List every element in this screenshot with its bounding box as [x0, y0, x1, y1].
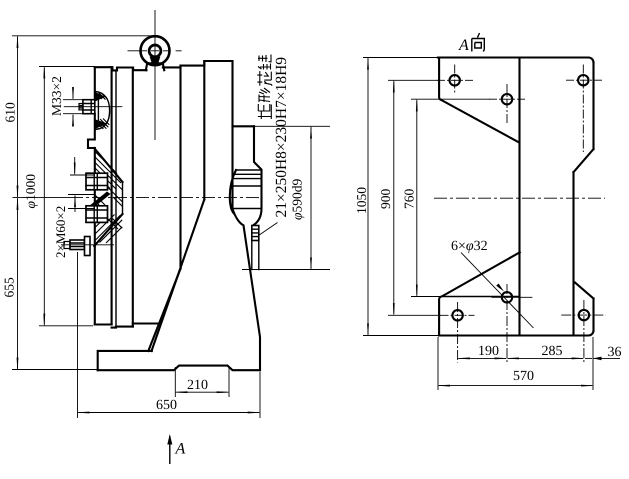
bottom small bolt nut [70, 240, 85, 250]
bottom-left ear chamfer diagonal [444, 252, 520, 295]
ext line hole1 row [388, 79, 440, 81]
dome hatch [95, 93, 109, 130]
shaft end verticals [252, 241, 259, 270]
M60 stud lower [86, 206, 108, 223]
svg-text:650: 650 [156, 398, 177, 413]
svg-text:610: 610 [3, 102, 18, 123]
svg-text:1050: 1050 [354, 187, 369, 214]
svg-text:φ1000: φ1000 [23, 174, 38, 209]
bolt hole H1 [450, 75, 460, 85]
eyebolt centrelines [154, 10, 156, 140]
top-left ear left edge [439, 58, 441, 101]
CJK char JU (rotated) [258, 104, 272, 119]
svg-text:570: 570 [513, 369, 534, 384]
centre column left edge [518, 58, 520, 336]
flange top edge [438, 58, 594, 63]
ext line flange bottom [363, 335, 439, 337]
svg-text:210: 210 [187, 378, 208, 393]
svg-text:6×φ32: 6×φ32 [451, 239, 488, 254]
bolt hole H6 [579, 310, 589, 320]
bolt hole H4 [452, 310, 462, 320]
body top edge segments [95, 67, 147, 70]
dim 190 [459, 357, 506, 359]
svg-text:655: 655 [2, 277, 17, 298]
eyebolt ring [141, 36, 170, 65]
dim M33x2 [63, 100, 83, 114]
black slab between studs [89, 192, 111, 210]
dim 285 [508, 357, 583, 359]
bolt hole H3 [578, 75, 588, 85]
plate vertical left edge [88, 67, 95, 324]
horizontal centreline [434, 197, 605, 199]
plate vertical lines [111, 67, 113, 324]
taper diagonal outer [148, 269, 180, 351]
svg-text:21×250H8×230H7×18H9: 21×250H8×230H7×18H9 [273, 57, 290, 218]
hub horizontal lines [231, 170, 262, 209]
M33 nut [83, 100, 95, 114]
svg-text:190: 190 [478, 344, 499, 359]
dim 655 [12, 369, 98, 371]
dim 900 line [393, 81, 395, 314]
taper diagonal inner [152, 200, 205, 352]
base bottom with pad [98, 366, 260, 371]
CJK char HUA (rotated) [257, 71, 272, 86]
CJK label rectangular spline [257, 55, 272, 120]
right lower slope [233, 209, 261, 370]
ext line right edge [592, 337, 594, 390]
svg-text:2×M60×2: 2×M60×2 [53, 206, 68, 258]
centre column right edge [572, 172, 574, 335]
eyebolt base [146, 63, 164, 70]
M33 thread stub [79, 104, 83, 110]
shelf line [233, 125, 255, 127]
eyebolt shank black [150, 57, 161, 64]
bolt hole H2 [502, 94, 512, 104]
dim 1050 line [367, 59, 369, 335]
bottom bolt flange [85, 237, 91, 256]
base step horizontal [98, 351, 152, 370]
svg-text:A: A [175, 441, 186, 458]
dim 210 [175, 367, 229, 397]
dim 650 [78, 252, 261, 418]
section arrow A [169, 436, 171, 464]
dim M60 ext lines [68, 175, 95, 209]
dome inner line [97, 95, 99, 126]
cylinder right edge [231, 61, 233, 209]
bottom small bolt thread [64, 242, 70, 249]
ext line ear top row [411, 296, 443, 298]
M33 dome seat [95, 91, 110, 129]
dim 610 [12, 35, 156, 37]
svg-text:M33×2: M33×2 [49, 76, 64, 116]
bottom flange bottom edge [439, 331, 593, 336]
bottom flange top edge [439, 296, 443, 336]
svg-text:36: 36 [608, 345, 622, 360]
ext line flange left corner [437, 337, 439, 390]
leader for spline label [259, 223, 278, 236]
dim phi590d9 [242, 126, 330, 269]
CJK char JIAN (rotated) [258, 55, 271, 70]
M60 cluster hatch wedge [94, 148, 122, 182]
body wall vertical x204 [203, 61, 205, 200]
svg-text:900: 900 [378, 189, 393, 210]
svg-text:760: 760 [402, 189, 417, 210]
dim 36 [585, 357, 592, 359]
M60 stud upper [86, 173, 108, 190]
top edge extension line (1050) [363, 57, 439, 59]
body wall vertical x180 [179, 66, 181, 269]
spline hub outline [253, 126, 262, 225]
dim phi1000 [39, 66, 95, 68]
CJK 向 glyph approximation [472, 33, 485, 52]
svg-text:285: 285 [542, 344, 563, 359]
svg-text:φ590d9: φ590d9 [290, 179, 305, 220]
dim 570 [439, 385, 592, 387]
main horizontal centreline [13, 197, 71, 199]
bottom bolt centreline [61, 244, 114, 246]
dim 760 line [416, 100, 418, 295]
spline band stack [252, 226, 259, 241]
ext line hole4 row [388, 314, 441, 316]
svg-text:A: A [458, 37, 469, 54]
bolt1 centreline [64, 106, 123, 108]
top-right ear chamfer [574, 149, 594, 172]
right edge lower [592, 299, 594, 331]
bottom flange ear top line to column [444, 296, 520, 298]
top-left ear chamfer diagonal [441, 100, 519, 143]
bottom-right ear chamfer [575, 283, 594, 299]
CJK char XING (rotated) [259, 88, 270, 102]
plate bottoms [95, 325, 133, 328]
hub left bulge [230, 170, 236, 213]
ext line hole2 row [411, 98, 490, 100]
right edge upper [592, 63, 594, 150]
bolt hole H5 [502, 292, 512, 302]
step line at plate bottom [133, 322, 159, 324]
